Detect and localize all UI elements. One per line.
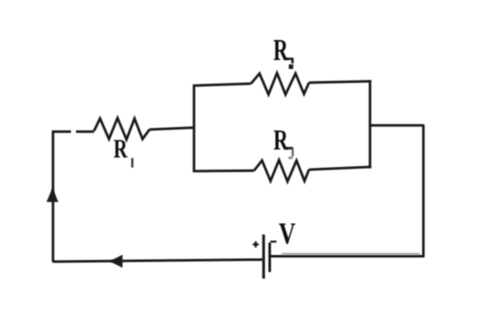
wire: top-left horizontal segment after break (76, 130, 94, 133)
wire: top-left horizontal segment (52, 130, 71, 133)
svg-text:R: R (273, 125, 288, 156)
wire: top branch right (309, 81, 371, 82)
label R2 subscript 2 (284, 58, 293, 64)
battery V positive plate (long) (262, 235, 265, 279)
label R3 subscript 3 foot (288, 157, 292, 160)
battery plus sign (253, 241, 259, 247)
wire: bottom right (battery to right corner) (270, 255, 424, 258)
wire: left vertical (52, 131, 55, 262)
label R2 subscript 2 dot (289, 64, 293, 69)
label R1 subscript 1 (131, 158, 133, 168)
resistor R1 (94, 118, 150, 140)
wire: bottom branch right (309, 167, 371, 170)
svg-text:V: V (279, 216, 296, 250)
label R3 subscript 3 tail (292, 149, 294, 157)
current arrow (left) on bottom wire (110, 255, 123, 268)
wire: parallel box left vertical (193, 85, 196, 172)
svg-text:R: R (273, 33, 289, 67)
wire: top branch left (193, 84, 251, 86)
label R3 subscript 3 (285, 147, 293, 150)
resistor R2 (251, 73, 309, 95)
battery V negative plate (short) (268, 243, 271, 272)
battery minus sign (270, 241, 276, 243)
scan artifact: gray fringe above bottom-right wire (282, 253, 420, 255)
wire: bottom branch left (193, 169, 254, 172)
resistor R3 (254, 160, 309, 182)
wire: bottom left (left corner to battery) (53, 260, 264, 262)
current arrow (up) on left wire (47, 188, 59, 202)
wire: right outer vertical (422, 125, 425, 257)
svg-text:R: R (114, 135, 128, 163)
wire: parallel box right vertical (369, 80, 372, 168)
wire: R1 to parallel junction (150, 128, 195, 130)
wire: parallel output to right (370, 124, 425, 127)
